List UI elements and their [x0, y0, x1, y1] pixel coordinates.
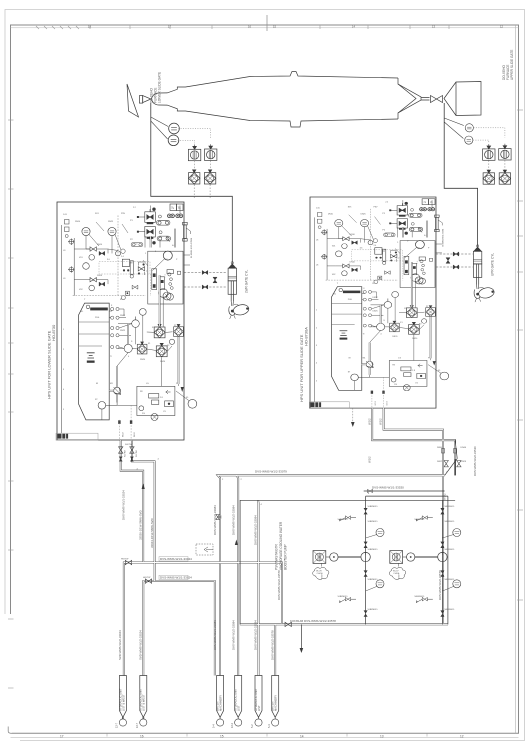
oil reservoir tank [79, 303, 110, 420]
pressure gauge PI1 [82, 227, 90, 235]
valve on riser 217 [216, 514, 221, 519]
small fitting pair top-left [65, 220, 70, 238]
svg-text:13-2: 13-2 [231, 722, 234, 728]
svg-text:5-4: 5-4 [268, 724, 271, 728]
svg-text:33024-1/1W-SMW-SVD: 33024-1/1W-SMW-SVD [150, 518, 154, 548]
lower slide gate valve body [139, 96, 151, 104]
svg-text:DVS-WMS-W1/2-33578: DVS-WMS-W1/2-33578 [277, 570, 281, 600]
riser link right [445, 440, 458, 475]
drop valve labels [125, 450, 138, 457]
manifold gauge big [163, 251, 172, 260]
svg-text:PG: PG [142, 413, 145, 415]
dashed control line horizontal [73, 295, 146, 297]
flag terminal 2 [139, 676, 147, 718]
svg-text:W1/2: W1/2 [367, 418, 371, 425]
svg-text:UPPER SLIDE GATE: UPPER SLIDE GATE [510, 50, 514, 80]
pipe: lower gate to cylinder [151, 103, 233, 264]
sub valve rect [152, 400, 159, 404]
terminal circle 3 [217, 719, 224, 726]
cross piping A [83, 249, 108, 284]
svg-text:DVS-WMS-W1/2-33079: DVS-WMS-W1/2-33079 [255, 470, 287, 474]
svg-text:13-7: 13-7 [136, 722, 139, 728]
outlet arrow [181, 387, 184, 392]
pump group 1 [313, 506, 384, 617]
svg-text:13: 13 [380, 735, 384, 739]
svg-text:5-2: 5-2 [251, 724, 254, 728]
fitting right riser A [442, 449, 445, 454]
flag terminal 4 [234, 676, 242, 718]
svg-text:5-4: 5-4 [213, 724, 216, 728]
svg-text:DN25: DN25 [461, 461, 467, 463]
svg-text:DN20: DN20 [160, 361, 166, 363]
terminal circle 6 [272, 719, 279, 726]
pump feed header [366, 496, 448, 624]
lower gate limit switch ZS1 [169, 123, 180, 134]
svg-text:HYDRAULIC UNIT: HYDRAULIC UNIT [234, 688, 238, 711]
tank level lines [79, 322, 109, 346]
internal pipe runs dark [109, 229, 178, 403]
PI2 leader [115, 235, 121, 251]
flag terminal 6 [271, 676, 279, 718]
svg-text:W1/2: W1/2 [367, 456, 371, 463]
drop fittings at box floor [118, 420, 120, 424]
leader lines diag [96, 222, 170, 266]
HPU box lower gate (left) [57, 202, 197, 440]
interconnect piping mid [118, 324, 173, 352]
svg-text:LWR GATE CYL: LWR GATE CYL [245, 270, 249, 293]
lower gate filter A [189, 170, 200, 184]
lower-left pilot cluster [132, 285, 138, 289]
svg-text:DN40: DN40 [461, 447, 467, 449]
terminal circle 4 [235, 719, 242, 726]
gauge A1 [89, 254, 95, 260]
svg-text:DVS-WMS-W1/2-33084: DVS-WMS-W1/2-33084 [232, 505, 236, 535]
hose couplings [202, 271, 208, 275]
upper gate label (rotated) [502, 50, 514, 80]
svg-text:PSV WASTA/GTR: PSV WASTA/GTR [275, 543, 279, 570]
hose couplings [453, 252, 459, 256]
leader circle mid [121, 249, 125, 253]
relief pill A [156, 220, 169, 225]
pump skid boundary left [240, 500, 455, 624]
PI1 leader [89, 235, 99, 247]
return filter F1 [137, 342, 147, 354]
pressure filter F3 [174, 324, 184, 336]
signal line ZS3 to solenoid [474, 128, 505, 138]
pipeline label konsum [290, 619, 336, 623]
pipe network inner white [121, 408, 455, 719]
dashed cluster enclosure [99, 262, 150, 275]
dashed control line vertical [117, 215, 119, 295]
svg-text:DVS-WMS-W1/2-33084: DVS-WMS-W1/2-33084 [213, 505, 217, 535]
pilot valve assembly [138, 267, 144, 271]
directional valve slice [152, 269, 157, 290]
svg-text:HO-8730A: HO-8730A [304, 327, 309, 346]
svg-text:SVD-WMS-W1/2-33024: SVD-WMS-W1/2-33024 [139, 630, 143, 660]
pump group 2 [389, 506, 460, 617]
directional valve slice 2 [160, 277, 165, 290]
pipeline label 33530 [372, 486, 404, 490]
bottom-left corner hook [8, 727, 12, 734]
svg-text:DVS-WMS-W1/1-33024: DVS-WMS-W1/1-33024 [160, 557, 192, 561]
svg-text:12: 12 [460, 735, 464, 739]
upper gate discharge hopper [444, 82, 481, 116]
svg-text:M: M [96, 383, 98, 385]
svg-text:DVS-WMS-W1/1-33024: DVS-WMS-W1/1-33024 [160, 576, 192, 580]
furnace vessel outline [151, 72, 430, 128]
solenoid wiring stubs [138, 209, 150, 240]
level switch L1 [68, 239, 75, 246]
drain dots [127, 269, 129, 271]
svg-text:DVS-WMS-W1/1-33084: DVS-WMS-W1/1-33084 [213, 620, 217, 650]
svg-text:HYDRAULIC UNIT: HYDRAULIC UNIT [139, 688, 143, 711]
wire stub top [151, 206, 180, 215]
svg-text:DN40: DN40 [437, 447, 443, 449]
lower gate solenoid valve B [205, 144, 217, 160]
valve right riser B [457, 461, 461, 467]
interconnect piping upper [74, 229, 190, 280]
upper gate instrument leaders [444, 118, 464, 139]
flag terminal 5 [254, 676, 262, 718]
bottom dashed stubs [119, 405, 131, 440]
upper gate limit switch ZS4 [465, 136, 473, 144]
accumulator slim [130, 261, 133, 275]
HPU box left label [47, 324, 57, 399]
upper gate hydraulic cylinder [473, 245, 495, 302]
svg-text:HYDRAULIC UNIT: HYDRAULIC UNIT [118, 688, 122, 711]
upper gate filter A [483, 170, 494, 184]
dashed drop to filters [195, 161, 211, 172]
lower gate limit switch ZS2 [168, 135, 179, 146]
left feed chute triangle [127, 84, 139, 117]
valve on drop A [119, 447, 123, 453]
manifold block [148, 251, 183, 304]
pipeline label 33024 upper [160, 557, 192, 561]
mini text greeble [63, 207, 189, 415]
sub arrows [166, 390, 171, 394]
valve header upper left [125, 560, 131, 564]
konsum drain [300, 624, 302, 648]
junction tick numbers [125, 444, 448, 562]
drain below right HPU [352, 408, 354, 422]
inline arrow riser 143 [142, 484, 145, 490]
union on drop B [130, 457, 133, 461]
frame top double line [11, 27, 519, 29]
fitting right riser B [454, 449, 457, 454]
vent valve V4 [167, 293, 174, 300]
svg-text:DN10: DN10 [97, 275, 103, 277]
pipe network outer line [121, 408, 455, 719]
suction valve [124, 344, 132, 352]
svg-text:KONSUM DVS-WMS-W1/2-33578: KONSUM DVS-WMS-W1/2-33578 [290, 619, 336, 623]
lower gate filter B [204, 170, 215, 184]
manifold relief rect [167, 270, 173, 274]
return valve V1 [132, 317, 140, 328]
svg-text:DN32: DN32 [120, 315, 126, 317]
HPU right box label [299, 327, 309, 402]
svg-text:SVD-WMS-W1/2-33024: SVD-WMS-W1/2-33024 [118, 630, 122, 660]
svg-text:DVS-WMS-W1/2-33530: DVS-WMS-W1/2-33530 [473, 446, 477, 476]
manifold port sq [177, 271, 180, 274]
external gauge leader [176, 391, 189, 401]
svg-text:HO-8730: HO-8730 [51, 324, 56, 341]
inner wall line [61, 225, 63, 433]
svg-text:BOOSTER PUMP: BOOSTER PUMP [284, 544, 288, 570]
manifold hatched gauge [163, 292, 171, 300]
svg-text:DN20: DN20 [140, 359, 146, 361]
sub gauge [139, 406, 144, 411]
gauge row 2 [83, 263, 90, 270]
konsum drain arrow [300, 648, 304, 653]
signal line ZS4 to solenoid [473, 140, 489, 143]
upper gate limit switch ZS3 [465, 124, 473, 132]
inner frame right double [515, 25, 517, 733]
svg-text:DN25: DN25 [120, 330, 126, 332]
frame tick marks right [517, 110, 523, 600]
tank drain plug [87, 361, 95, 363]
svg-text:LOWER SLIDE GATE: LOWER SLIDE GATE [158, 72, 162, 103]
pipeline label 33024 lower [160, 576, 192, 580]
terminal circle 2 [140, 719, 147, 726]
tank heater bar [90, 308, 108, 311]
pressure gauge PI2 [108, 227, 116, 235]
svg-text:SG/TW: SG/TW [136, 450, 138, 457]
valve 33530 line [367, 489, 372, 493]
union on drop A [119, 457, 122, 461]
label boxes on headers [159, 557, 188, 580]
svg-text:13-7: 13-7 [116, 722, 119, 728]
sub check comp [165, 401, 174, 407]
check A2 [99, 282, 105, 286]
booster pump label (rotated) [275, 521, 288, 570]
lower gate instrument leaders [151, 117, 168, 139]
HPU right corner tag [309, 402, 349, 409]
hand valve A2 [90, 278, 96, 282]
HPU box upper gate (right) [310, 197, 449, 408]
svg-text:14: 14 [300, 735, 304, 739]
frame bottom tick marks [107, 733, 427, 736]
vent valve V3 [159, 289, 168, 298]
solenoid valve A [145, 212, 156, 223]
svg-text:DVS-WMS-W1/2-33084: DVS-WMS-W1/2-33084 [232, 620, 236, 650]
svg-text:DVS-WMS-W1/2-33094: DVS-WMS-W1/2-33094 [253, 515, 257, 545]
svg-text:W1/2: W1/2 [379, 418, 383, 425]
upper gate solenoid valve A [483, 144, 495, 160]
dashed signal drop [151, 274, 165, 296]
inline arrow riser 236 [235, 540, 238, 546]
svg-text:HYDRAULIC UNIT: HYDRAULIC UNIT [254, 688, 258, 711]
svg-text:DVS-WMS-W1/1-33530: DVS-WMS-W1/1-33530 [372, 486, 404, 490]
upper gate solenoid valve B [499, 144, 511, 160]
external gauge [188, 399, 197, 408]
pipeline label 33079 [255, 470, 287, 474]
sub relief pill [149, 394, 159, 398]
pipe: upper gate to cylinder [444, 103, 477, 247]
port circles [158, 215, 161, 218]
pressure filter F4 [154, 324, 165, 337]
branch 33530 [364, 490, 445, 492]
dashed drop to filters [489, 160, 505, 172]
terminal circle 5 [255, 719, 262, 726]
indicator circles [168, 214, 183, 218]
valve on drop B [130, 447, 134, 453]
lower gate label (rotated) [150, 72, 162, 103]
svg-text:WATER: WATER [216, 702, 220, 711]
frame tick marks left [8, 120, 14, 688]
svg-text:ANCHORAGE COOLING WATER: ANCHORAGE COOLING WATER [279, 521, 283, 570]
svg-text:17: 17 [60, 735, 64, 739]
svg-text:33530-1/1W-SMW-SVD: 33530-1/1W-SMW-SVD [139, 510, 143, 540]
motor-pump unit [114, 387, 121, 395]
gauge A2 [89, 285, 95, 291]
svg-text:DN10: DN10 [97, 244, 103, 246]
lower gate solenoid valve A [188, 145, 200, 161]
frame centre tick top [266, 15, 268, 31]
level switch L2 [68, 266, 75, 272]
upper gate filter B [499, 170, 510, 184]
svg-text:WATER: WATER [271, 702, 275, 711]
internal pipe runs white core [109, 229, 178, 403]
svg-text:DVS-WMS-W1/2-33094: DVS-WMS-W1/2-33094 [253, 620, 257, 650]
tag box pair [170, 204, 177, 211]
pump piping [106, 353, 129, 406]
frame tick marks top [36, 25, 449, 29]
riser labels (rotated) [118, 418, 477, 660]
terminal circle 1 [119, 719, 126, 726]
svg-text:⅞: ⅞ [171, 206, 174, 210]
small gauge center [116, 251, 121, 256]
svg-text:HG/TW: HG/TW [143, 577, 151, 579]
upper slide gate valve body [431, 96, 443, 103]
valve right riser A [444, 461, 448, 467]
frame zone numbers bottom [60, 735, 464, 739]
svg-text:SG/TW: SG/TW [125, 444, 133, 446]
svg-text:DN25: DN25 [108, 221, 114, 223]
HG/TW labels [121, 559, 151, 580]
svg-text:DN25: DN25 [437, 461, 443, 463]
flag terminal 3 [216, 676, 224, 718]
signal line ZS1 to solenoid [178, 129, 211, 139]
pump riser 2 [441, 500, 443, 624]
test point column on right wall [183, 222, 191, 241]
inner frame bottom double [11, 736, 519, 738]
control sub-box [137, 386, 175, 415]
DN tags right risers [437, 447, 467, 463]
hand valve A1 [90, 247, 96, 251]
top pill fitting [131, 243, 143, 247]
hose lines HPU to lower cylinder [184, 273, 227, 288]
svg-text:SG/TW: SG/TW [125, 450, 127, 457]
check A1 [99, 251, 105, 255]
flag terminal 1 [118, 676, 126, 718]
sub hatched circle [151, 414, 158, 421]
svg-text:UPR GATE CYL: UPR GATE CYL [491, 253, 495, 276]
svg-text:15: 15 [220, 735, 224, 739]
accumulator pocket on riser [196, 544, 213, 555]
svg-text:16: 16 [140, 735, 144, 739]
manifold ports [168, 273, 171, 276]
block valve center [122, 259, 129, 266]
filter gauge [169, 339, 174, 344]
tank level gauge mark [87, 353, 95, 358]
return filter F2 [156, 343, 167, 356]
svg-text:DN10: DN10 [75, 221, 81, 223]
svg-text:W-SMW-SVD-33584: W-SMW-SVD-33584 [191, 237, 193, 258]
return valve V2 [139, 309, 146, 316]
extra connect lines lower [102, 297, 179, 420]
svg-text:DVS-WMS-W1/2-33578: DVS-WMS-W1/2-33578 [270, 630, 274, 660]
svg-text:DVS-WMS-W1/1-33024: DVS-WMS-W1/1-33024 [122, 490, 126, 520]
frame top zone numbers [88, 24, 503, 28]
solenoid valve B [145, 227, 156, 238]
tank fill cap [86, 305, 90, 309]
greek text rows [84, 220, 149, 385]
tank fittings column [111, 307, 120, 348]
valve header lower left [145, 579, 151, 583]
lower gate hydraulic cylinder [228, 262, 250, 319]
relief pill B [157, 236, 170, 241]
pump suction strainer [98, 402, 106, 410]
left standpipe [73, 238, 75, 296]
svg-text:PSV: PSV [121, 213, 126, 215]
hose lines HPU to upper cylinder [436, 254, 473, 267]
valve konsum line [285, 622, 291, 626]
svg-text:DVS-WMS-W1/2-33578: DVS-WMS-W1/2-33578 [438, 570, 442, 600]
dashed drop from filters to HPU [194, 185, 210, 200]
signal line ZS2 to solenoid [178, 140, 195, 143]
svg-text:W1/2: W1/2 [443, 493, 447, 500]
HPU box left corner tag [56, 433, 98, 440]
